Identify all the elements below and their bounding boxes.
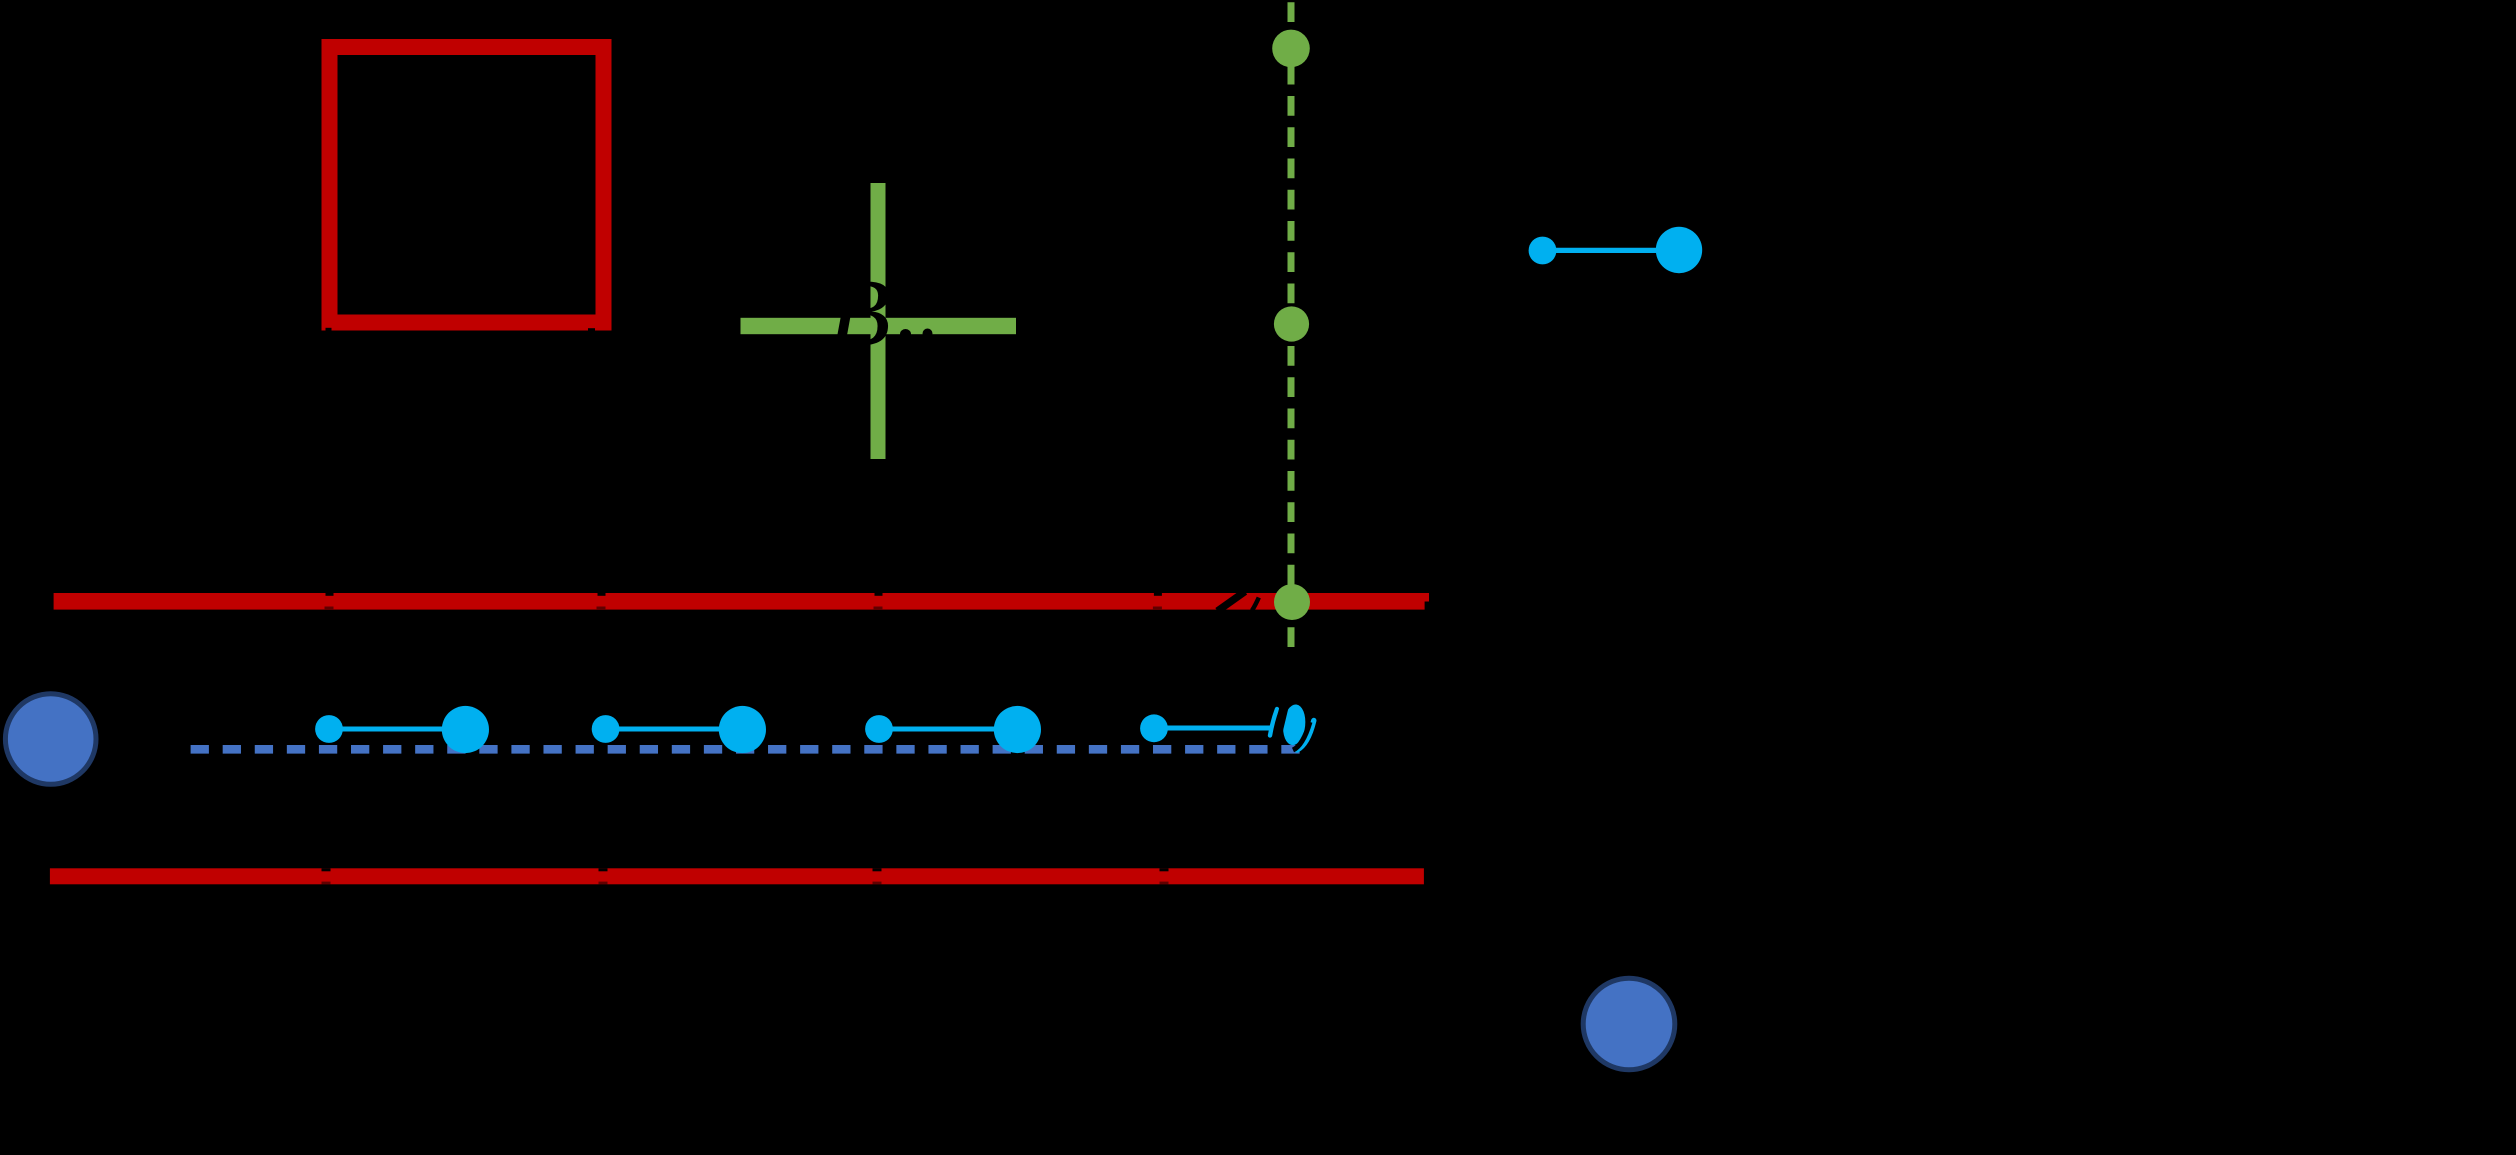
green cross horizontal bar <box>741 318 1017 334</box>
blue ion circle left <box>5 694 96 785</box>
green dashed line (rod path) <box>1288 0 1295 649</box>
green dot top <box>1272 30 1310 68</box>
black notches on top rail <box>326 593 1162 596</box>
electron group top right <box>1529 227 1703 273</box>
dark notches bottom edge of top rail <box>325 607 1162 610</box>
black subscript dot 2 <box>923 329 933 339</box>
black italic letter strokes over top rail <box>1218 592 1259 612</box>
electron group 3 <box>865 706 1041 753</box>
black notches on bottom rail <box>322 868 1169 871</box>
green cross vertical bar <box>871 183 886 459</box>
red bottom rail <box>50 868 1424 884</box>
blue ion circle bottom <box>1583 978 1675 1070</box>
black subscript dot 1 <box>900 329 911 339</box>
green dot middle <box>1274 306 1309 341</box>
red top rail <box>54 593 1429 610</box>
electron group 2 <box>592 706 766 753</box>
black nick on square bottom edge (left) <box>326 328 332 331</box>
blue dashed electron path <box>191 745 1312 754</box>
red square loop <box>330 47 604 323</box>
green dot on rail <box>1274 584 1310 620</box>
cyan velocity glyph v <box>1270 701 1314 753</box>
black nick on square bottom edge (right) <box>588 328 595 331</box>
electron group 1 <box>315 706 489 753</box>
dark notches bottom edge of bottom rail <box>322 882 1169 885</box>
electron group 4 <box>1140 714 1272 742</box>
svg-text:B: B <box>828 259 891 367</box>
